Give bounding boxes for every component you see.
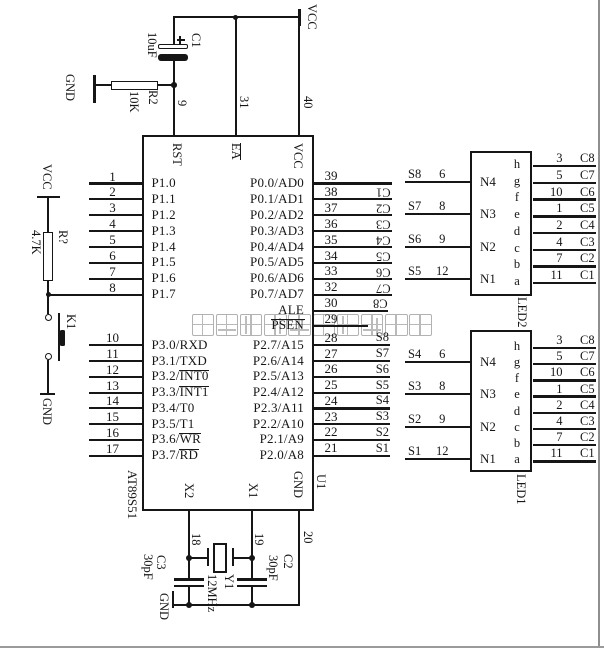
wire segment C4 (LED1)	[533, 412, 596, 414]
wire pin 25	[314, 392, 390, 394]
pin name P2.7/A15	[253, 338, 304, 352]
pin number 24	[325, 394, 338, 407]
net label S4	[376, 394, 389, 407]
net label S8	[376, 331, 389, 344]
switch K1 button nub	[60, 330, 65, 345]
pin name segment c (LED2)	[514, 242, 520, 255]
pin number 19	[252, 533, 265, 546]
pin name N2 (LED2)	[480, 240, 496, 253]
pin number 15	[106, 410, 119, 423]
pin number 7 (LED1)	[556, 431, 562, 444]
resistor R? designator	[57, 230, 70, 244]
net label S3	[408, 380, 421, 393]
resistor R? value 4.7K	[29, 230, 42, 255]
capacitor C2 designator	[282, 554, 295, 569]
pin number 5 (LED1)	[556, 350, 562, 363]
pin number 2	[109, 185, 116, 198]
crystal Y1 designator	[222, 574, 235, 589]
pin number 3	[109, 201, 116, 214]
net label C5 (LED1)	[580, 383, 595, 396]
crystal Y1 right plate	[232, 548, 234, 566]
pin number 17	[106, 442, 119, 455]
wire segment C2 (LED1)	[533, 444, 596, 446]
wire X1 pin19	[251, 509, 253, 579]
resistor R? body	[43, 232, 53, 281]
pin number 38	[325, 185, 338, 198]
pin number 6 (LED1 N4)	[439, 348, 445, 361]
net label C3 (LED1)	[580, 415, 595, 428]
wire pin 23	[314, 423, 390, 425]
pin name segment e (LED1)	[514, 388, 520, 401]
wire pin 6	[89, 262, 142, 264]
VCC power symbol bar	[298, 9, 301, 26]
resistor R2 designator	[147, 90, 160, 105]
net label C6 (LED2)	[580, 186, 595, 199]
pin number 11	[106, 347, 119, 360]
pin name PSEN (active low)	[271, 318, 304, 332]
pin number 14	[106, 394, 119, 407]
pin name P0.4/AD4	[250, 240, 304, 254]
pin name P1.4	[152, 240, 176, 254]
pin name P0.0/AD0	[250, 176, 304, 190]
wire segment S6 to LED2	[405, 246, 470, 248]
net label C7 (LED1)	[580, 350, 595, 363]
wire rail to VCC pin40	[298, 17, 300, 135]
wire VCC bar to R?	[47, 198, 49, 232]
pin number 18	[190, 533, 203, 546]
pin number 3 (LED1)	[556, 334, 562, 347]
pin number 4 (LED1)	[556, 415, 562, 428]
capacitor C1 bottom plate	[158, 54, 189, 61]
capacitor C2 value 30pF	[267, 555, 280, 581]
ground label GND (crystal)	[158, 593, 171, 620]
wire pin 38	[314, 198, 392, 200]
pin number 12	[106, 363, 119, 376]
pin name P1.6	[152, 271, 176, 285]
pin number 5 (LED2)	[556, 169, 562, 182]
wire pin 35	[314, 246, 392, 248]
wire segment C4 (LED2)	[533, 232, 596, 234]
pin name segment g (LED2)	[514, 175, 520, 188]
pin number 30	[325, 296, 338, 309]
pin name P2.2/A10	[253, 417, 304, 431]
pin name RST	[170, 143, 183, 166]
pin number 1 (LED2)	[556, 202, 562, 215]
net label C1 (LED2)	[580, 269, 595, 282]
junction C2/ground rail	[249, 602, 255, 608]
pin number 6 (LED2 N4)	[439, 168, 445, 181]
crystal Y1 value 12MHz	[206, 574, 219, 612]
switch K1 actuator bar	[58, 313, 60, 362]
wire pin 28	[314, 344, 390, 346]
net label C4 (LED1)	[580, 399, 595, 412]
wire segment C3 (LED2)	[533, 249, 596, 251]
junction rail/EA wire	[233, 15, 238, 20]
wire pin 14	[89, 407, 142, 409]
border line right	[598, 0, 600, 648]
wire X2 pin18	[188, 509, 190, 579]
net label C1	[376, 186, 391, 199]
pin number 1	[109, 170, 116, 183]
pin name P1.5	[152, 255, 176, 269]
net label C4 (LED2)	[580, 219, 595, 232]
pin number 37	[325, 201, 338, 214]
pin name P1.7	[152, 287, 176, 301]
pin name P2.6/A14	[253, 354, 304, 368]
resistor R2 body	[111, 81, 158, 90]
pin name P3.0/RXD	[152, 338, 208, 352]
wire segment C5 (LED2)	[533, 215, 596, 217]
pin name segment a (LED2)	[514, 275, 520, 288]
wire pin 3	[89, 214, 142, 216]
pin number 10 (LED2)	[550, 186, 563, 199]
capacitor C3 bottom plate	[174, 585, 204, 588]
VCC net label (left)	[41, 164, 54, 190]
wire pin 17	[89, 455, 142, 457]
pin name N2 (LED1)	[480, 420, 496, 433]
pin number 39	[325, 169, 338, 182]
pin number 10 (LED1)	[550, 366, 563, 379]
capacitor C1 value 10uF	[145, 32, 158, 58]
net label C3	[376, 218, 391, 231]
pin number 1 (LED1)	[556, 383, 562, 396]
capacitor C1 designator	[190, 33, 203, 48]
pin number 16	[106, 426, 119, 439]
switch K1 top contact	[45, 314, 52, 321]
pin number 9 (LED2 N2)	[439, 233, 445, 246]
pin name P3.2/INT0	[152, 369, 209, 383]
pin name EA (active low)	[230, 143, 243, 160]
chip part number AT89S51	[126, 470, 139, 519]
pin name P1.3	[152, 224, 176, 238]
pin name segment b (LED1)	[514, 437, 520, 450]
wire segment C2 (LED2)	[533, 265, 596, 267]
pin number 7 (LED2)	[556, 252, 562, 265]
ground symbol bar (crystal)	[172, 591, 175, 608]
pin name P0.3/AD3	[250, 224, 304, 238]
wire pin 2	[89, 198, 142, 200]
wire pin 26	[314, 376, 390, 378]
net label C7	[376, 282, 391, 295]
pin name N1 (LED2)	[480, 272, 496, 285]
net label C5 (LED2)	[580, 202, 595, 215]
pin name P2.4/A12	[253, 385, 304, 399]
ground label GND (K1)	[41, 398, 54, 425]
pin number 12 (LED2 N1)	[436, 265, 449, 278]
pin number 23	[325, 410, 338, 423]
wire pin 22	[314, 439, 390, 441]
wire R2 to junction	[157, 84, 174, 86]
wire pin 27	[314, 360, 390, 362]
net label C2 (LED2)	[580, 252, 595, 265]
pin name P0.1/AD1	[250, 192, 304, 206]
net label S3	[376, 410, 389, 423]
wire pin 39	[314, 182, 392, 184]
wire C1 to RST junction	[173, 61, 175, 85]
pin name N3 (LED1)	[480, 387, 496, 400]
junction P1.7 node	[46, 292, 51, 297]
pin number 12 (LED1 N1)	[436, 445, 449, 458]
pin number 21	[325, 441, 338, 454]
wire C2 to ground rail	[251, 587, 253, 605]
wire segment S5 to LED2	[405, 278, 470, 280]
net label C2 (LED1)	[580, 431, 595, 444]
wire segment C3 (LED1)	[533, 428, 596, 430]
resistor R2 value 10K	[128, 91, 141, 113]
pin number 3 (LED2)	[556, 152, 562, 165]
pin name segment h (LED2)	[514, 158, 520, 171]
junction C3/ground rail	[186, 602, 192, 608]
pin name P3.3/INT1	[152, 385, 209, 399]
wire pin 5	[89, 246, 142, 248]
wire K1 to GND	[47, 360, 49, 393]
wire C1 to rail	[173, 17, 175, 45]
pin number 2 (LED1)	[556, 399, 562, 412]
pin name segment d (LED2)	[514, 225, 520, 238]
pin name P3.7/RD	[152, 448, 199, 462]
pin name P3.5/T1	[152, 417, 195, 431]
pin name X1	[246, 483, 259, 498]
pin number 9	[175, 100, 188, 106]
pin number 5	[109, 233, 116, 246]
net label C8	[373, 297, 388, 310]
net label C8 (LED2)	[580, 152, 595, 165]
wire crystal right stub	[234, 557, 252, 559]
crystal Y1 body	[213, 543, 227, 574]
pin number 27	[325, 347, 338, 360]
wire ground rail bottom	[173, 604, 301, 606]
net label S1	[408, 445, 421, 458]
wire pin 32	[314, 294, 392, 296]
pin number 9 (LED1 N2)	[439, 413, 445, 426]
pin number 2 (LED2)	[556, 219, 562, 232]
net label C2	[376, 202, 391, 215]
connector designator LED1	[515, 474, 528, 505]
pin number 6	[109, 249, 116, 262]
junction RST node	[171, 82, 177, 88]
connector N block LED2 body	[470, 151, 532, 297]
pin number 31	[238, 96, 251, 109]
pin number 32	[325, 280, 338, 293]
pin name P0.6/AD6	[250, 271, 304, 285]
microcontroller U1 AT89S51 body	[142, 135, 314, 511]
wire pin 7	[89, 278, 142, 280]
pin name segment d (LED1)	[514, 405, 520, 418]
wire pin 36	[314, 230, 392, 232]
pin number 25	[325, 378, 338, 391]
pin number 8 (LED2 N3)	[439, 200, 445, 213]
switch K1 bottom contact	[45, 353, 52, 360]
crystal Y1 left plate	[207, 548, 209, 566]
pin name P3.6/WR	[152, 432, 201, 446]
pin name segment h (LED1)	[514, 340, 520, 353]
pin name P2.3/A11	[253, 401, 304, 415]
pin name P3.4/T0	[152, 401, 195, 415]
pin name segment c (LED1)	[514, 421, 520, 434]
wire pin 37	[314, 214, 392, 216]
pin number 11 (LED2)	[550, 269, 562, 282]
pin name P2.1/A9	[260, 432, 304, 446]
capacitor C1 top plate	[158, 44, 189, 49]
pin number 36	[325, 217, 338, 230]
net label C5	[376, 250, 391, 263]
wire segment S8 to LED2	[405, 181, 470, 183]
pin name segment b (LED2)	[514, 258, 520, 271]
pin number 7	[109, 265, 116, 278]
ground label GND (R2)	[64, 74, 77, 101]
connector N block LED1 body	[470, 330, 532, 472]
wire segment C1 (LED1)	[533, 460, 596, 462]
wire junction to switch K1	[47, 295, 49, 314]
capacitor C3 value 30pF	[142, 554, 155, 580]
wire pin 13	[89, 392, 142, 394]
net label C4	[376, 234, 391, 247]
pin name segment f (LED1)	[515, 372, 519, 385]
pin number 33	[325, 264, 338, 277]
net label S2	[376, 426, 389, 439]
pin name N3 (LED2)	[480, 207, 496, 220]
pin number 28	[325, 331, 338, 344]
net label S1	[376, 442, 389, 455]
connector designator LED2	[516, 297, 529, 328]
wire segment C7 (LED1)	[533, 363, 596, 365]
switch K1 designator	[65, 314, 78, 329]
wire segment C8 (LED2)	[533, 165, 596, 167]
net label S6	[376, 363, 389, 376]
wire pin 30 ALE	[314, 310, 388, 312]
wire pin 11	[89, 360, 142, 362]
wire pin 33	[314, 278, 392, 280]
VCC power symbol bar (left)	[37, 196, 60, 199]
net label S6	[408, 233, 421, 246]
wire segment S2 to LED1	[405, 426, 470, 428]
pin number 34	[325, 249, 338, 262]
wire rail to EA pin31	[235, 17, 237, 135]
junction X1/crystal	[249, 555, 255, 561]
pin number 11 (LED1)	[550, 447, 562, 460]
junction X2/crystal	[186, 555, 192, 561]
pin number 4 (LED2)	[556, 236, 562, 249]
pin number 35	[325, 233, 338, 246]
VCC net label	[306, 4, 319, 30]
pin name ALE	[278, 303, 304, 317]
capacitor C1 plus sign	[177, 39, 185, 41]
border line bottom	[0, 646, 604, 648]
wire pin 10	[89, 344, 142, 346]
ground symbol bar (K1)	[40, 393, 55, 396]
net label C8 (LED1)	[580, 334, 595, 347]
wire pin 24	[314, 407, 390, 409]
capacitor C3 top plate	[174, 578, 204, 581]
net label S7	[376, 347, 389, 360]
pin name P0.7/AD7	[250, 287, 304, 301]
pin number 8	[109, 281, 116, 294]
wire pin 34	[314, 262, 392, 264]
wire R2 to GND	[95, 84, 112, 86]
pin name GND	[291, 471, 304, 498]
pin number 29	[325, 312, 338, 325]
pin name P1.0	[152, 176, 176, 190]
wire pin 15	[89, 423, 142, 425]
capacitor C2 top plate	[237, 578, 267, 581]
wire segment C8 (LED1)	[533, 347, 596, 349]
chip designator U1	[314, 474, 327, 489]
pin number 8 (LED1 N3)	[439, 380, 445, 393]
net label C6 (LED1)	[580, 366, 595, 379]
wire pin 4	[89, 230, 142, 232]
wire segment S4 to LED1	[405, 361, 470, 363]
wire segment C7 (LED2)	[533, 182, 596, 184]
wire pin 8	[48, 294, 142, 296]
wire pin 1	[89, 182, 142, 184]
pin name P3.1/TXD	[152, 354, 207, 368]
watermark text	[0, 0, 1, 1]
pin name VCC	[291, 143, 304, 169]
net label S8	[408, 168, 421, 181]
net label S2	[408, 413, 421, 426]
pin name P1.1	[152, 192, 176, 206]
pin name segment f (LED2)	[515, 191, 519, 204]
wire R? to junction	[47, 280, 49, 295]
pin number 20	[301, 531, 314, 544]
pin name segment a (LED1)	[514, 453, 520, 466]
wire VCC rail top	[173, 16, 300, 18]
net label C3 (LED2)	[580, 236, 595, 249]
pin name P0.5/AD5	[250, 255, 304, 269]
pin name segment e (LED2)	[514, 208, 520, 221]
wire GND pin20	[298, 509, 300, 605]
wire junction to RST pin9	[173, 85, 175, 135]
pin number 10	[106, 331, 119, 344]
net label S7	[408, 200, 421, 213]
pin name N1 (LED1)	[480, 452, 496, 465]
pin number 22	[325, 425, 338, 438]
ground symbol bar (R2)	[93, 75, 96, 103]
pin number 4	[109, 217, 116, 230]
net label S4	[408, 348, 421, 361]
wire segment C5 (LED1)	[533, 395, 596, 397]
pin name P0.2/AD2	[250, 208, 304, 222]
wire pin 29 PSEN	[314, 325, 368, 327]
pin name P2.0/A8	[260, 448, 304, 462]
pin name segment g (LED1)	[514, 356, 520, 369]
wire segment C1 (LED2)	[533, 282, 596, 284]
wire pin 12	[89, 376, 142, 378]
pin number 26	[325, 362, 338, 375]
wire segment S3 to LED1	[405, 393, 470, 395]
wire segment C6 (LED2)	[533, 198, 596, 200]
pin name N4 (LED2)	[480, 175, 496, 188]
pin name P2.5/A13	[253, 369, 304, 383]
net label S5	[408, 265, 421, 278]
wire crystal left stub	[189, 557, 207, 559]
net label S5	[376, 379, 389, 392]
pin name X2	[182, 483, 195, 498]
net label C7 (LED2)	[580, 169, 595, 182]
wire C3 to ground rail	[188, 587, 190, 605]
wire pin 21	[314, 455, 390, 457]
capacitor C2 bottom plate	[237, 585, 267, 588]
net label C1 (LED1)	[580, 447, 595, 460]
net label C6	[376, 266, 391, 279]
capacitor C3 designator	[155, 555, 168, 570]
pin number 13	[106, 379, 119, 392]
pin number 40	[302, 96, 315, 109]
pin name P1.2	[152, 208, 176, 222]
wire segment S1 to LED1	[405, 458, 470, 460]
pin name N4 (LED1)	[480, 355, 496, 368]
wire pin 16	[89, 439, 142, 441]
